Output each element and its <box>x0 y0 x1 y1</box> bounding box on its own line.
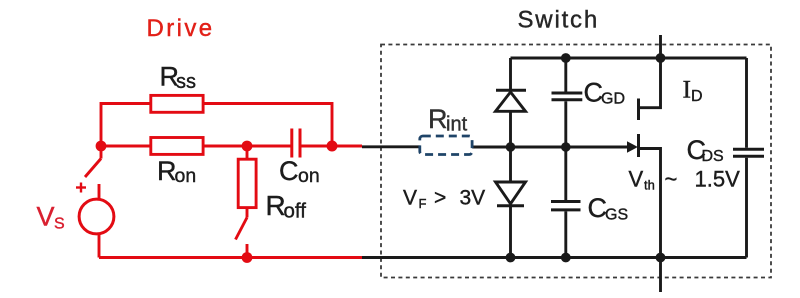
transistor channel bar (drain side) <box>637 99 640 121</box>
capacitor CGS (plates) <box>551 202 581 210</box>
switch S1 (drive on switch) top stub <box>100 146 103 159</box>
wire: diode D2 to bottom rail <box>509 206 512 258</box>
wire: between diode D1 and gate node <box>509 112 512 148</box>
node: bottom rail / CGS junction <box>561 253 571 263</box>
wire: source stub below rail <box>659 258 662 293</box>
svg-text:I: I <box>683 75 692 104</box>
svg-text:on: on <box>298 165 320 187</box>
svg-text:ss: ss <box>176 71 196 93</box>
plus polarity mark <box>76 183 86 193</box>
wire: transistor source jog and vertical to rail <box>639 149 661 258</box>
wire: source bottom to ground rail <box>98 233 101 258</box>
node: top rail / drain junction <box>656 53 666 63</box>
svg-text:C: C <box>279 156 299 186</box>
wire: Roff top connection <box>246 146 249 159</box>
svg-text:3V: 3V <box>460 187 486 210</box>
node C (junction dot right of Con) <box>327 141 338 152</box>
Rss label <box>160 62 197 94</box>
node: bottom rail / source junction <box>656 253 666 263</box>
capacitor CGD (plates) <box>552 93 583 100</box>
svg-text:F: F <box>419 196 427 211</box>
svg-text:V: V <box>403 187 417 210</box>
wire: diode branch top connection <box>509 58 512 89</box>
resistor Ron <box>151 138 203 155</box>
transistor channel bar (source side) <box>637 134 640 157</box>
Con label <box>279 156 320 187</box>
wire: top rail <box>511 57 747 60</box>
capacitor CDS (plates) <box>733 149 764 156</box>
node: gate wire / CGD-CGS junction <box>561 142 571 152</box>
wire: gate row left segment (node dot A to Con) <box>101 145 291 148</box>
wire: gate node to CGS top <box>564 147 567 200</box>
resistor Roff <box>238 159 256 207</box>
node D (junction dot bottom Roff) <box>242 252 253 263</box>
Ron label <box>157 156 196 187</box>
CDS label <box>687 135 724 165</box>
diode D1 (upper gate clamp, pointing up) <box>496 90 527 111</box>
wire: right branch vertical bottom (CDS to rail) <box>745 158 748 258</box>
svg-text:R: R <box>428 104 448 134</box>
svg-text:Switch: Switch <box>518 7 600 34</box>
switch module boundary (dashed box) <box>381 45 771 278</box>
svg-text:Drive: Drive <box>147 15 215 42</box>
switch S2 (Roff branch) blade <box>236 218 248 240</box>
node A (junction dot left) <box>96 141 107 152</box>
CGD label <box>584 77 626 107</box>
Vth ~ 1.5V label <box>629 167 741 193</box>
node B (junction dot Roff top) <box>242 141 253 152</box>
wire: CGS bottom to rail <box>564 211 567 257</box>
wire: between gate node and diode D2 <box>509 147 512 182</box>
svg-text:V: V <box>629 167 644 192</box>
wire: gate wire Rint to transistor arrow <box>472 146 628 149</box>
wire: S1 bottom contact to source top <box>98 184 101 201</box>
wire: red bottom rail <box>99 256 362 259</box>
wire: CGD bottom to gate wire <box>564 101 567 147</box>
node: gate wire / diode junction <box>506 142 516 152</box>
wire: gate row from Con to node C <box>301 145 363 148</box>
svg-text:>: > <box>434 187 446 210</box>
wire: CGD top connection <box>564 58 567 92</box>
svg-text:th: th <box>644 178 655 193</box>
wire: Roff bottom stub to switch blade <box>246 208 249 218</box>
svg-text:~: ~ <box>665 167 678 192</box>
transistor gate arrow <box>627 141 638 152</box>
node: top rail / CGD junction <box>561 53 571 63</box>
diode D2 (lower, pointing down) <box>496 182 526 206</box>
svg-text:on: on <box>175 165 197 187</box>
resistor Rint (dashed box) <box>420 136 472 155</box>
wire: drain stub above box (ID) <box>659 35 662 58</box>
VF > 3V label <box>403 187 485 212</box>
voltage source VS (circle) <box>79 199 114 234</box>
resistor Rss <box>151 95 203 112</box>
wire: gate wire from red node into Rint <box>362 145 420 148</box>
node: bottom rail / diode junction <box>506 253 516 263</box>
capacitor Con (plates) <box>292 129 300 158</box>
svg-text:int: int <box>446 113 468 135</box>
svg-text:V: V <box>37 201 55 231</box>
svg-text:GS: GS <box>605 206 628 223</box>
wire: S2 bottom contact stub <box>246 244 249 258</box>
CGS label <box>588 193 629 223</box>
svg-text:DS: DS <box>702 148 724 165</box>
VS label <box>37 201 65 232</box>
wire: black bottom rail <box>362 256 747 259</box>
svg-text:off: off <box>284 200 307 223</box>
svg-text:1.5V: 1.5V <box>695 167 741 192</box>
svg-text:S: S <box>54 216 65 233</box>
svg-text:D: D <box>691 88 703 105</box>
switch S1 blade <box>85 159 101 178</box>
wire: drain vertical into transistor <box>639 58 661 108</box>
wire: left vertical + top rail + right vertical (Rss branch) <box>101 104 332 147</box>
Roff label <box>266 190 307 223</box>
svg-text:GD: GD <box>601 91 625 108</box>
ID label <box>683 75 703 106</box>
Rint label <box>428 104 468 135</box>
wire: right branch vertical top (to CDS) <box>745 58 748 148</box>
